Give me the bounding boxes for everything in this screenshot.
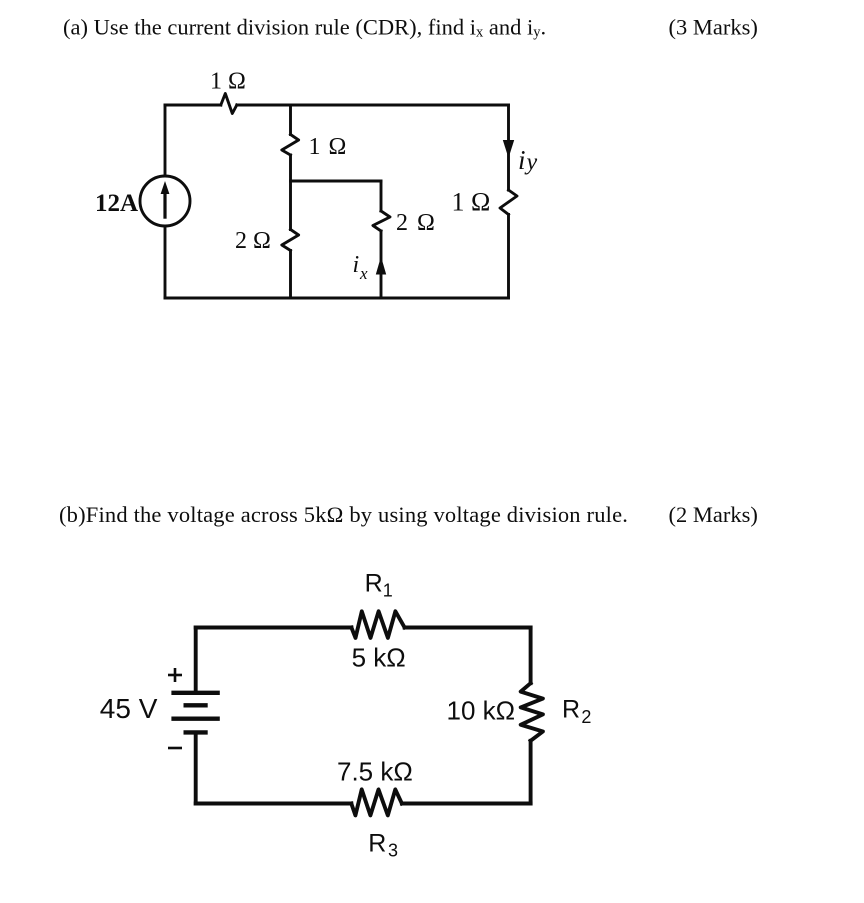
label 5 kohm [352, 643, 406, 673]
resistor R1 zigzag [351, 611, 404, 638]
resistor middle 2-ohm zigzag [282, 230, 299, 251]
label R1 [365, 569, 393, 600]
resistor R3 zigzag [351, 789, 402, 815]
wire right lower [507, 215, 510, 299]
battery 45V plates [171, 693, 219, 733]
svg-text:y: y [525, 150, 538, 176]
wire left upper [164, 105, 167, 176]
svg-text:(a) Use the current division r: (a) Use the current division rule (CDR),… [63, 14, 546, 40]
label 10 kohm [447, 696, 516, 726]
label R3 [368, 830, 398, 861]
svg-text:R: R [365, 569, 383, 597]
resistor R2 zigzag [521, 683, 543, 741]
svg-text:1 Ω: 1 Ω [210, 69, 246, 95]
wire right upper [529, 628, 533, 684]
wire top-left segment [196, 626, 352, 630]
svg-text:1: 1 [383, 581, 393, 601]
label 7.5 kohm [337, 757, 413, 787]
wire top-right segment [237, 104, 509, 107]
svg-text:10 kΩ: 10 kΩ [447, 696, 516, 726]
wire inner horizontal [291, 180, 382, 183]
battery minus sign [168, 747, 182, 750]
resistor inner 2-ohm zigzag [373, 211, 390, 231]
wire left upper [194, 628, 198, 692]
svg-text:R: R [368, 830, 386, 858]
label 45 V [100, 693, 158, 724]
wire top-right segment [405, 626, 531, 630]
label 2 ohm left [235, 228, 271, 254]
svg-text:(2 Marks): (2 Marks) [669, 502, 758, 527]
current source arrow [161, 181, 170, 219]
svg-text:1 Ω: 1 Ω [309, 134, 348, 160]
wire bottom [165, 297, 509, 300]
wire left lower [194, 734, 198, 804]
label 12A [95, 190, 138, 217]
svg-text:45 V: 45 V [100, 693, 158, 724]
svg-text:(3 Marks): (3 Marks) [669, 14, 758, 39]
label 2 ohm inner [396, 210, 436, 236]
wire right lower [529, 741, 533, 804]
current source 12A circle [140, 176, 190, 226]
svg-text:x: x [359, 264, 368, 283]
wire inner vertical lower [380, 231, 383, 298]
marks label (3 Marks) [669, 14, 758, 39]
wire middle mid [289, 155, 292, 230]
label 1 ohm top [210, 69, 246, 95]
wire right upper [507, 105, 510, 190]
svg-text:3: 3 [388, 841, 398, 861]
svg-text:2 Ω: 2 Ω [235, 228, 271, 254]
svg-text:2 Ω: 2 Ω [396, 210, 436, 236]
wire inner vertical upper [380, 181, 383, 211]
label 1 ohm middle [309, 134, 348, 160]
label 1 ohm right [452, 188, 491, 217]
svg-text:2: 2 [581, 707, 591, 727]
current arrow ix (up) [376, 257, 386, 275]
wire middle lower [289, 251, 292, 299]
label R2 [562, 695, 591, 727]
svg-text:5 kΩ: 5 kΩ [352, 643, 406, 673]
wire top-left segment [165, 104, 221, 107]
label iy [518, 145, 538, 176]
marks label (2 Marks) [669, 502, 758, 527]
heading line (b) [59, 502, 628, 527]
svg-text:R: R [562, 695, 580, 723]
resistor middle 1-ohm zigzag [282, 135, 299, 156]
svg-text:7.5 kΩ: 7.5 kΩ [337, 757, 413, 787]
wire left lower [164, 226, 167, 298]
svg-text:(b)Find the voltage across 5kΩ: (b)Find the voltage across 5kΩ by using … [59, 502, 628, 527]
heading line (a) [63, 14, 546, 40]
wire middle upper [289, 105, 292, 135]
svg-text:12A: 12A [95, 190, 138, 217]
svg-text:i: i [353, 252, 360, 278]
wire bottom-left segment [196, 802, 352, 806]
battery plus sign [168, 668, 182, 682]
current arrow iy (down) [503, 140, 514, 158]
label ix [353, 252, 369, 283]
svg-text:i: i [518, 145, 526, 175]
svg-text:1 Ω: 1 Ω [452, 188, 491, 217]
wire bottom-right segment [402, 802, 531, 806]
resistor right 1-ohm zigzag [500, 190, 517, 215]
resistor R top 1-ohm zigzag [221, 94, 237, 114]
